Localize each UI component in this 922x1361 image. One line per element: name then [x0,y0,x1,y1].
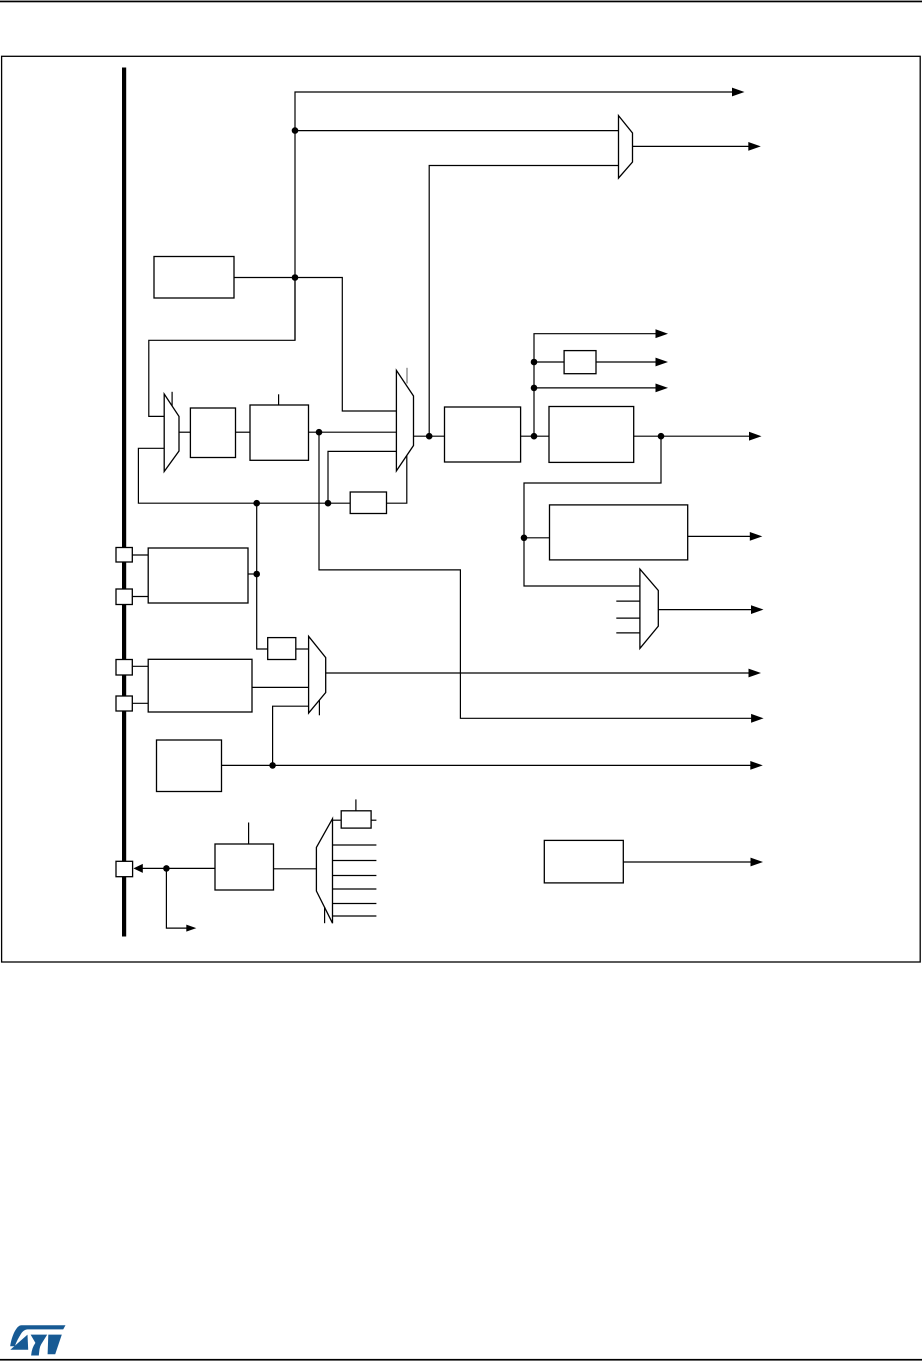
wire: mux0 output [414,435,445,437]
mux1 (left small multiplexer) [164,394,179,472]
wire: mux4 output [658,609,752,611]
select tick mux0 (gray) [406,368,408,384]
box CPU divider [549,407,634,463]
stub RTC box right [371,819,376,821]
arrow into CCO pin (left) [133,864,142,873]
node boxA output [253,571,260,578]
mux2 (RTC clock mux) [309,636,326,713]
select tick mux3 [324,907,326,923]
wire: mux1 input 2 loop [138,448,350,503]
arrow fHSE [732,88,745,97]
node CCO branch [163,865,170,872]
wire pin1 to boxA [132,554,148,556]
pin PIN4 [116,696,132,711]
pin CCO [116,861,133,876]
wire: mux T output [633,145,750,147]
mux4 input stub 1 [616,600,640,602]
node mux0 output [426,433,433,440]
wire CCO down branch with arrow [166,868,189,928]
wire: mux0 input 3 [328,451,396,503]
arrow CCO branch [186,925,196,932]
wire pin4 to boxB [132,702,148,704]
box FB divider (small) [350,492,386,514]
internal bus (thick vertical line) [122,68,126,937]
mux3 input stub 3 [333,875,377,877]
ST logo [10,1325,65,1355]
arrow mux4 output [751,605,764,614]
wire from small box y=362 [596,361,657,363]
tick box2 top [278,394,280,405]
arrow boxF output [751,858,764,867]
wire: mux T lower input from master clock [429,166,618,437]
wire riser x=256.7 [257,503,268,649]
wire: riser x=534 with three outputs [534,334,657,437]
wire: between dividers [521,435,549,437]
wire LSI output [222,764,752,766]
mux3 input stub 6 [333,915,377,917]
arrow mux T output [748,142,761,151]
small box LS divider [268,638,296,660]
mux3 input stub 5 [333,903,377,905]
mux3 (CCO source mux, points left) [316,819,332,924]
footer rule [0,1359,922,1361]
node y=388 [531,385,538,392]
mux3 input stub 4 [333,888,377,890]
mux0 (master clock multiplexer) [396,370,413,471]
arrow y=718 [751,714,764,723]
box C (LSI RC) [157,740,222,792]
wire boxF output [623,861,751,863]
wire y=388 [534,387,657,389]
wire: box1 to box2 [236,431,251,433]
arrow y=362 [656,358,669,367]
arrow master clock [749,432,762,441]
small box RTC [341,811,371,828]
wire: HSE OSC output [234,277,295,279]
node master clock branch [658,433,665,440]
box B (LSE oscillator) [148,659,252,712]
node CSS input [521,535,528,542]
node y=362 [531,359,538,366]
wire: CSS output [688,535,751,537]
node LSI branch [269,762,276,769]
tick RTC box top [355,799,357,810]
wire: FB box to mux0 bottom [387,456,407,504]
mux4 (peripheral clock mux) [640,569,658,648]
wire: branch to CSS [524,436,661,586]
arrow y=388 [656,384,669,393]
mux3 input stub 1 [333,844,377,846]
wire CCO [141,867,215,869]
mux T (top-right multiplexer) [619,116,633,179]
pin OSCOUT [116,589,132,605]
box master divider [445,407,521,462]
wire: HSE to mux0 input 1 [295,278,396,412]
select tick mux2 [318,700,320,715]
arrow LSI output [750,761,763,770]
arrow CSS output [750,532,763,541]
wire: fHSE output (y=92) [295,92,734,340]
node: HSE junction [292,274,299,281]
tick boxE top [248,823,250,845]
wire boxA output [248,573,257,575]
wire into CSS box [524,537,550,539]
small box top (divider) [564,351,596,374]
node: HSI branch [316,429,323,436]
box1 (divider) [190,408,235,458]
wire boxB output to mux2 [252,686,309,688]
wire: HSE down-loop to mux1 input 1 [149,278,295,417]
wire pin3 to boxB [132,665,148,667]
wire: HSE to mux T input 1 [295,130,619,132]
select tick mux1 [171,392,173,406]
wire mux2 output [326,672,750,674]
box CSS [550,505,688,560]
arrow y=334 [656,329,669,338]
mux3 input stub 2 [333,860,377,862]
arrow mux2 output [749,669,762,678]
wire: HSI long branch to right arrow (y=718) [319,432,753,718]
node on feedback y=503 right [325,500,332,507]
pin PIN3 [116,660,132,676]
box2 (HSI RC) [250,405,309,460]
pin OSCIN [116,548,132,563]
figure frame [2,56,921,962]
wire: master clock out [634,435,750,437]
box A (oscillator) [148,548,248,603]
box E (CCO divider) [215,844,274,890]
wire pin2 to boxA [132,596,148,598]
node on feedback y=503 left [253,500,260,507]
wire LS box to mux2 [296,648,309,650]
wire: mux1 output to box1 [179,431,190,433]
box HSE OSC [154,257,234,299]
wire to small box y=362 [534,361,564,363]
node between dividers [531,433,538,440]
wire mux3 to RTC small box [333,819,342,821]
wire: box2 to mux0 input 2 [309,431,397,433]
header rule [0,1,922,3]
node: HSE to mux T [292,127,299,134]
mux4 input stub 2 [616,617,640,619]
box F (watchdog) [544,840,623,883]
mux4 input stub 3 [616,632,640,634]
wire mux3 output to boxE [274,868,317,870]
wire LSI to mux2 lower input [273,706,309,765]
